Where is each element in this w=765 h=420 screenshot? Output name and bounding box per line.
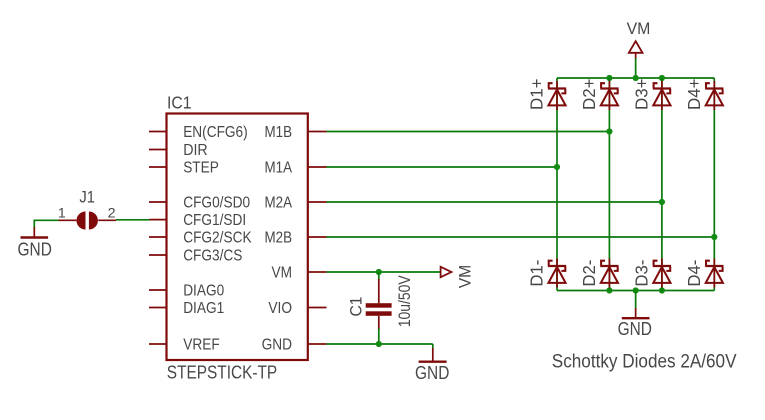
- diode D4+: [705, 81, 723, 110]
- junction: [606, 75, 612, 81]
- pin M2B: [308, 236, 327, 238]
- svg-text:D3-: D3-: [632, 260, 652, 287]
- svg-text:GND: GND: [18, 240, 52, 260]
- svg-text:EN(CFG6): EN(CFG6): [183, 124, 248, 141]
- pin M2A: [308, 201, 327, 203]
- svg-text:J1: J1: [79, 189, 95, 207]
- pin VM: [308, 271, 327, 273]
- ground GND near C1: [432, 348, 434, 361]
- wire M2A: [327, 201, 662, 203]
- wire VM row to C1: [378, 272, 380, 280]
- svg-text:VREF: VREF: [183, 337, 220, 354]
- junction: [376, 341, 382, 347]
- junction: [554, 164, 560, 170]
- wire VM top bus: [557, 77, 714, 79]
- diode D3-: [653, 259, 671, 288]
- svg-text:D1+: D1+: [527, 79, 547, 111]
- pin CFG0/SD0: [149, 201, 167, 203]
- junction: [606, 287, 612, 293]
- wire diode column D4: [713, 78, 715, 291]
- svg-text:D2-: D2-: [579, 260, 599, 287]
- svg-text:CFG2/SCK: CFG2/SCK: [183, 230, 252, 247]
- svg-text:DIAG0: DIAG0: [183, 283, 224, 300]
- svg-text:D2+: D2+: [579, 79, 599, 111]
- wire M2B: [327, 236, 715, 238]
- diode D3+: [653, 81, 671, 110]
- svg-text:M1A: M1A: [265, 160, 293, 177]
- svg-text:STEPSTICK-TP: STEPSTICK-TP: [167, 362, 277, 382]
- svg-text:CFG3/CS: CFG3/CS: [183, 248, 242, 265]
- IC IC1 (STEPSTICK-TP) box: [167, 114, 308, 361]
- wire GND bottom bus: [557, 290, 714, 292]
- wire M1B: [327, 131, 610, 133]
- wire diode column D2: [608, 78, 610, 291]
- wire C1 to GND row: [378, 316, 380, 330]
- svg-text:GND: GND: [415, 363, 449, 383]
- pin M1B: [308, 131, 327, 133]
- capacitor C1: [366, 303, 392, 308]
- svg-text:CFG0/SD0: CFG0/SD0: [183, 195, 250, 212]
- svg-text:STEP: STEP: [183, 160, 219, 177]
- junction: [659, 75, 665, 81]
- svg-text:VIO: VIO: [268, 300, 292, 317]
- junction: [633, 75, 639, 81]
- svg-text:GND: GND: [262, 337, 292, 354]
- pin M1A: [308, 166, 327, 168]
- pin VIO: [308, 307, 327, 309]
- svg-text:D4-: D4-: [684, 260, 704, 287]
- junction: [659, 199, 665, 205]
- connector J1: [77, 212, 86, 230]
- svg-text:GND: GND: [618, 319, 652, 339]
- ground GND bottom: [635, 308, 637, 317]
- pin GND: [308, 343, 327, 345]
- wire GND to J1 pin1: [34, 219, 58, 221]
- svg-text:VM: VM: [456, 265, 475, 289]
- diode D2+: [600, 81, 618, 110]
- wire down to GND: [33, 220, 35, 228]
- junction: [376, 269, 382, 275]
- diode D1+: [548, 81, 566, 110]
- svg-text:IC1: IC1: [167, 93, 192, 113]
- svg-text:Schottky Diodes 2A/60V: Schottky Diodes 2A/60V: [552, 352, 737, 373]
- wire diode column D3: [661, 78, 663, 291]
- pin CFG2/SCK: [149, 236, 167, 238]
- pin STEP: [149, 166, 167, 168]
- svg-text:CFG1/SDI: CFG1/SDI: [183, 212, 246, 229]
- wire M1A: [327, 166, 558, 168]
- pin EN(CFG6): [149, 131, 167, 133]
- svg-text:M2A: M2A: [265, 195, 293, 212]
- pin DIAG0: [149, 289, 167, 291]
- supply VM right: [441, 267, 452, 277]
- svg-text:VM: VM: [627, 19, 651, 38]
- svg-text:D3+: D3+: [632, 79, 652, 111]
- junction: [633, 287, 639, 293]
- diode D4-: [705, 259, 723, 288]
- junction: [711, 234, 717, 240]
- wire bottom bus to GND: [635, 291, 637, 310]
- pin VREF: [149, 343, 167, 345]
- pin DIR: [149, 149, 167, 151]
- svg-text:DIAG1: DIAG1: [183, 300, 224, 317]
- pin CFG3/CS: [149, 254, 167, 256]
- svg-text:C1: C1: [348, 297, 366, 317]
- junction: [659, 287, 665, 293]
- svg-text:1: 1: [58, 205, 66, 221]
- wire J1 pin2 to CFG1/SDI: [116, 219, 150, 221]
- ground GND left: [33, 227, 35, 237]
- wire VM pin to arrow: [327, 271, 441, 273]
- svg-text:D1-: D1-: [527, 260, 547, 287]
- svg-text:VM: VM: [272, 265, 293, 282]
- svg-text:10u/50V: 10u/50V: [396, 275, 414, 327]
- wire GND pin: [327, 343, 433, 345]
- pin DIAG1: [149, 307, 167, 309]
- diode D1-: [548, 259, 566, 288]
- svg-text:2: 2: [108, 205, 116, 221]
- svg-text:M2B: M2B: [265, 230, 293, 247]
- diode D2-: [600, 259, 618, 288]
- junction: [606, 128, 612, 134]
- svg-text:M1B: M1B: [265, 124, 293, 141]
- wire down to GND: [432, 344, 434, 349]
- svg-text:DIR: DIR: [183, 142, 208, 159]
- pin CFG1/SDI: [149, 219, 167, 221]
- svg-text:D4+: D4+: [684, 79, 704, 111]
- wire VM arrow to top bus: [635, 58, 637, 78]
- wire diode column D1: [556, 78, 558, 291]
